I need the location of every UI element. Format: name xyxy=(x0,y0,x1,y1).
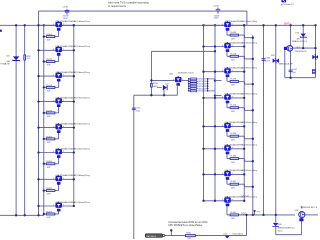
junction dots right mid y48 xyxy=(302,47,304,49)
transistor Q99 xyxy=(223,67,233,77)
resistor R-087 xyxy=(46,190,55,192)
transistor Q59 xyxy=(223,170,233,180)
wire left gate bus x43 xyxy=(43,25,45,215)
wire Q53 stub up xyxy=(301,206,303,209)
wire right col bus x203 xyxy=(203,25,205,201)
wire top rail drop right xyxy=(246,11,248,25)
svg-text:10R: 10R xyxy=(231,111,235,113)
resistor R262 xyxy=(186,235,196,237)
svg-text:R-186: R-186 xyxy=(230,156,237,158)
wire gate row left 5 xyxy=(44,138,59,140)
port PACK- box xyxy=(145,234,162,237)
svg-text:R-067: R-067 xyxy=(46,211,53,213)
capacitor C153 xyxy=(132,108,136,110)
svg-text:100n: 100n xyxy=(136,111,140,113)
transistor Q95 xyxy=(54,46,64,56)
wire DSG net y215 xyxy=(227,214,295,216)
wire right gate bus x252 xyxy=(252,35,254,215)
svg-text:Q94 JT60A0U2N06AT(Oftterm)Terr: Q94 JT60A0U2N06AT(Oftterm)Terry xyxy=(55,20,91,23)
svg-text:to requirements: to requirements xyxy=(108,4,127,8)
transistor Q57 xyxy=(223,144,233,154)
svg-text:PeteC4dCfx: PeteC4dCfx xyxy=(233,233,243,236)
svg-text:100V: 100V xyxy=(63,18,68,20)
svg-text:D24: D24 xyxy=(271,55,274,57)
wire left source bus x38 xyxy=(38,11,40,215)
wire drop x303 TVS xyxy=(302,25,304,48)
port pin circle xyxy=(163,235,165,237)
wire cell row right 7 xyxy=(204,173,245,175)
wire top rail B+ xyxy=(39,10,247,12)
svg-text:TVS4B-T/F: TVS4B-T/F xyxy=(0,64,10,66)
junction dots middle y95 xyxy=(150,94,152,96)
svg-text:Q57 JT60A0U2N06AT(Oftterm)Terr: Q57 JT60A0U2N06AT(Oftterm)Terry xyxy=(225,144,257,147)
junction dot divider bottom xyxy=(214,94,216,96)
capacitor C148 xyxy=(66,9,68,11)
wire right mid y48 xyxy=(284,47,316,49)
wire middle horizontal y95 xyxy=(134,94,178,96)
wire middle link y51 xyxy=(151,50,215,52)
resistor R252 xyxy=(24,55,26,60)
capacitor C147 xyxy=(289,70,293,72)
svg-text:10R: 10R xyxy=(47,65,51,67)
wire gate row left 4 xyxy=(44,112,59,114)
wire gate row right 7 xyxy=(226,179,228,184)
svg-text:10R: 10R xyxy=(47,167,51,169)
wire gate row left 6 xyxy=(44,163,59,165)
symbol top-right TVS clipped xyxy=(281,0,286,2)
svg-text:Q48 JT60A0U2N06AT(Oftterm)Terr: Q48 JT60A0U2N06AT(Oftterm)Terry xyxy=(55,201,91,204)
svg-text:Q95 JT60A0U2N06AT(Oftterm)Terr: Q95 JT60A0U2N06AT(Oftterm)Terry xyxy=(55,45,91,48)
wire cell row left 3 xyxy=(39,75,74,77)
svg-text:Q55 JT60A0U2N06AT(Oftterm)Terr: Q55 JT60A0U2N06AT(Oftterm)Terry xyxy=(225,93,257,96)
wire riser x246 xyxy=(246,215,248,236)
svg-text:10R: 10R xyxy=(231,85,235,87)
svg-text:SL0x: SL0x xyxy=(278,230,283,232)
svg-text:R-167: R-167 xyxy=(230,212,237,214)
diode D30 zener xyxy=(272,223,278,227)
wire Q53 drain down xyxy=(301,218,303,235)
svg-text:Q98 JT60A0U2N06AT(Oftterm)Terr: Q98 JT60A0U2N06AT(Oftterm)Terry xyxy=(225,41,257,44)
wire cell row left 2 xyxy=(39,49,74,51)
wire divider stub right top xyxy=(215,80,222,82)
wire divider stub right bottom xyxy=(215,95,222,97)
resistor R-186 xyxy=(230,158,238,160)
svg-text:10R: 10R xyxy=(231,60,235,62)
svg-text:R-098: R-098 xyxy=(230,32,237,34)
junction dots bottom-left bus xyxy=(15,214,17,216)
wire gate row right 4 xyxy=(226,103,228,108)
svg-text:+1R: +1R xyxy=(26,58,30,60)
wire gate row right 8 xyxy=(226,205,228,215)
wire bottom-left bus y215 xyxy=(0,214,44,216)
transistor Q94 xyxy=(54,21,64,31)
svg-text:Q51: Q51 xyxy=(296,47,300,49)
wire gate row left 1 xyxy=(44,36,59,38)
transistor Q49 xyxy=(54,175,64,185)
diode D22 TVS zener xyxy=(12,56,20,61)
svg-text:R-064: R-064 xyxy=(46,34,53,36)
capacitor C146 xyxy=(217,8,219,10)
resistor R-175 xyxy=(230,81,238,83)
wire left edge drop x24 xyxy=(24,25,26,215)
wire right col bus x215 xyxy=(214,25,216,201)
transistor Q52 xyxy=(173,76,183,86)
svg-text:SBR10U45SP5-13: SBR10U45SP5-13 xyxy=(278,227,296,229)
resistor R-075 xyxy=(46,61,55,63)
svg-text:10R: 10R xyxy=(47,217,51,219)
resistor R-098 xyxy=(230,34,238,36)
svg-text:Q97 JT60A0U2N06AT(Oftterm)Terr: Q97 JT60A0U2N06AT(Oftterm)Terry xyxy=(225,20,257,23)
svg-text:R-084: R-084 xyxy=(46,136,53,138)
svg-text:10R: 10R xyxy=(231,187,235,189)
svg-text:10R: 10R xyxy=(47,194,51,196)
wire Q52 source down xyxy=(176,85,178,95)
svg-text:Q45 JT60A0U2N06AT(Oftterm)Terr: Q45 JT60A0U2N06AT(Oftterm)Terry xyxy=(55,96,91,99)
resistor RN2 in divider xyxy=(189,80,191,82)
svg-text:SMBJ24CA-T/F: SMBJ24CA-T/F xyxy=(279,63,294,66)
wire cell row right 3 xyxy=(204,71,245,73)
svg-text:Q47 JT60A0U2N06AT(Oftterm)Terr: Q47 JT60A0U2N06AT(Oftterm)Terry xyxy=(55,147,91,150)
wire cell row right 2 xyxy=(204,46,245,48)
resistor R-187 xyxy=(230,183,238,185)
wire D30 branch down xyxy=(275,215,277,223)
wire gate row left 7 xyxy=(44,190,59,192)
wire cell row left 8 xyxy=(39,205,74,207)
transistor Q56 xyxy=(223,122,233,132)
wire below D30 xyxy=(275,227,277,235)
zener diode D25 xyxy=(300,34,307,38)
wire D30 bottom y234 xyxy=(276,234,302,236)
resistor R-176 xyxy=(230,55,238,57)
TVS D24 xyxy=(273,58,279,63)
svg-text:10nF: 10nF xyxy=(265,61,270,63)
junction dot middle link xyxy=(214,50,216,52)
svg-text:SMAZ40-XXX-T-F: SMAZ40-XXX-T-F xyxy=(292,40,308,43)
wire left drain bus x73 xyxy=(73,25,75,206)
wire cell row left 1 xyxy=(39,24,74,26)
svg-text:Q49 JT60A0U2N06AT(Oftterm)Terr: Q49 JT60A0U2N06AT(Oftterm)Terry xyxy=(55,174,91,177)
resistor R-167 xyxy=(230,214,238,216)
transistor Q97 xyxy=(223,21,233,31)
svg-text:R-073: R-073 xyxy=(46,110,53,112)
svg-text:D26: D26 xyxy=(224,233,227,235)
transistor Q55 xyxy=(223,94,233,104)
svg-text:R-184: R-184 xyxy=(230,133,237,135)
resistor divider stack U7 xyxy=(188,79,190,91)
svg-text:R-074: R-074 xyxy=(46,85,53,87)
wire Q51 gate drop xyxy=(284,50,286,77)
resistor RN6 in divider xyxy=(189,90,191,92)
svg-text:10R: 10R xyxy=(231,139,235,141)
svg-text:SO8GDP-TL431: SO8GDP-TL431 xyxy=(178,73,195,75)
wire cell row left 4 xyxy=(39,101,74,103)
svg-text:R-075: R-075 xyxy=(46,59,53,61)
wire cell row left 6 xyxy=(39,152,74,154)
diode D27 xyxy=(163,85,167,90)
svg-text:10R: 10R xyxy=(231,162,235,164)
resistor R-086 xyxy=(46,163,55,165)
junction dots on net y25 xyxy=(15,24,17,26)
wire gate row left 8 xyxy=(44,213,59,215)
svg-text:BAT-PACK: BAT-PACK xyxy=(147,235,157,238)
wire gate row right 6 xyxy=(226,153,228,158)
wire gate row left 2 xyxy=(44,61,59,63)
transistor Q53 xyxy=(299,212,305,222)
wire divider right rail to bus xyxy=(208,78,215,80)
resistor R-074 xyxy=(46,86,55,88)
svg-text:100V: 100V xyxy=(214,18,219,20)
transistor Q47 xyxy=(54,148,64,158)
transistor Q48 xyxy=(54,202,64,212)
svg-text:gn?namber T-F: gn?namber T-F xyxy=(281,3,295,6)
capacitor C164 xyxy=(262,59,266,61)
svg-text:R-175: R-175 xyxy=(230,79,237,81)
svg-text:Q46 JT60A0U2N06AT(Oftterm)Terr: Q46 JT60A0U2N06AT(Oftterm)Terry xyxy=(55,122,91,125)
svg-text:R-176: R-176 xyxy=(230,53,237,55)
wire gate row right 5 xyxy=(226,131,228,136)
svg-text:TP8: TP8 xyxy=(256,211,259,213)
resistor R258 xyxy=(151,83,153,87)
wire drop x315 xyxy=(315,25,317,77)
TVS D28 clipped right edge xyxy=(312,55,318,60)
wire cell row right 1 xyxy=(204,24,245,26)
svg-text:CPU MOSFETs on slower/faster: CPU MOSFETs on slower/faster xyxy=(168,224,202,227)
wire Q53 to right edge xyxy=(305,214,318,216)
testpoint TP8 xyxy=(254,211,256,215)
transistor Q96 xyxy=(54,72,64,82)
svg-text:Q56 JT60A0U2N06AT(Oftterm)Terr: Q56 JT60A0U2N06AT(Oftterm)Terry xyxy=(225,121,257,124)
wire gate row right 2 xyxy=(226,51,228,56)
diode D26 xyxy=(225,236,230,239)
svg-text:10R: 10R xyxy=(231,38,235,40)
svg-text:100R: 100R xyxy=(153,86,158,88)
svg-text:DSG: DSG xyxy=(241,212,247,216)
wire vertical x134 to bottom xyxy=(133,95,135,239)
svg-text:Q59 JT60A0U2N06AT(Oftterm)Terr: Q59 JT60A0U2N06AT(Oftterm)Terry xyxy=(225,169,257,172)
wire Q52 to divider xyxy=(182,79,189,81)
svg-text:C148: C148 xyxy=(63,7,69,9)
svg-text:Q96 JT60A0U2N06AT(Oftterm)Terr: Q96 JT60A0U2N06AT(Oftterm)Terry xyxy=(55,71,91,74)
svg-text:DSG-off: DSG-off xyxy=(241,196,249,198)
svg-text:DMN3016LSS-T-F: DMN3016LSS-T-F xyxy=(301,207,318,209)
capacitor C149 right edge xyxy=(312,71,316,73)
wire drop x275 TVS xyxy=(275,25,277,215)
wire Q52 drain y80 xyxy=(151,79,174,81)
wire cell row right 6 xyxy=(204,148,245,150)
wire cell row right 5 xyxy=(204,125,245,127)
wire drop x290 xyxy=(290,25,292,77)
resistor R-174 xyxy=(230,107,238,109)
svg-text:R-087: R-087 xyxy=(46,188,53,190)
junction dots DSG net xyxy=(245,214,247,216)
svg-text:0R10-1W: 0R10-1W xyxy=(198,91,206,93)
svg-text:10R: 10R xyxy=(47,90,51,92)
transistor Q45 xyxy=(54,97,64,107)
wire cell row left 5 xyxy=(39,127,74,129)
svg-text:C146: C146 xyxy=(213,5,219,7)
wire cell row left 7 xyxy=(39,178,74,180)
svg-text:BAT+: BAT+ xyxy=(284,22,291,26)
testpoint TP10 xyxy=(170,231,172,236)
svg-text:Q54: Q54 xyxy=(295,210,299,212)
svg-text:10R: 10R xyxy=(47,142,51,144)
svg-text:R-187: R-187 xyxy=(230,181,237,183)
wire gate row left 3 xyxy=(44,86,59,88)
stub left edge label xyxy=(0,30,2,32)
resistor R-084 xyxy=(46,138,55,140)
resistor R-067 xyxy=(46,213,55,215)
transistor Q98 xyxy=(223,42,233,52)
wire right col drain bus x244 xyxy=(243,25,245,201)
junction dot divider top xyxy=(214,79,216,81)
wire gate row right 3 xyxy=(226,76,228,81)
wire drop x263 xyxy=(263,25,265,215)
resistor RN4 in divider xyxy=(189,85,191,87)
svg-text:R-086: R-086 xyxy=(46,161,53,163)
wire main horizontal net y25 xyxy=(0,24,316,26)
wire cell row right 8 xyxy=(204,200,245,202)
svg-text:10R: 10R xyxy=(47,40,51,42)
transistor Q58 xyxy=(223,196,233,206)
transistor Q46 xyxy=(54,123,64,133)
svg-text:Q99 JT60A0U2N06AT(Oftterm)Terr: Q99 JT60A0U2N06AT(Oftterm)Terry xyxy=(225,67,257,70)
resistor RN5 in divider xyxy=(189,88,191,90)
wire gate row right 1 xyxy=(226,30,228,35)
resistor RN1 in divider xyxy=(189,78,191,80)
resistor RN3 in divider xyxy=(189,83,191,85)
resistor R-184 xyxy=(230,135,238,137)
wire bus vertical x151 xyxy=(150,51,152,95)
resistor R-073 xyxy=(46,112,55,114)
svg-text:R-174: R-174 xyxy=(230,105,237,107)
wire left edge TVS drop x16 xyxy=(15,25,17,215)
wire right join y77 xyxy=(285,77,316,79)
wire cell row right 4 xyxy=(204,97,245,99)
svg-text:10R: 10R xyxy=(231,218,235,220)
svg-text:10R: 10R xyxy=(47,116,51,118)
transistor Q51 2N7002 xyxy=(284,45,293,51)
wire bottom row y235 xyxy=(164,235,247,237)
resistor R-064 xyxy=(46,36,55,38)
svg-text:2N7002W-T-F: 2N7002W-T-F xyxy=(295,51,308,53)
